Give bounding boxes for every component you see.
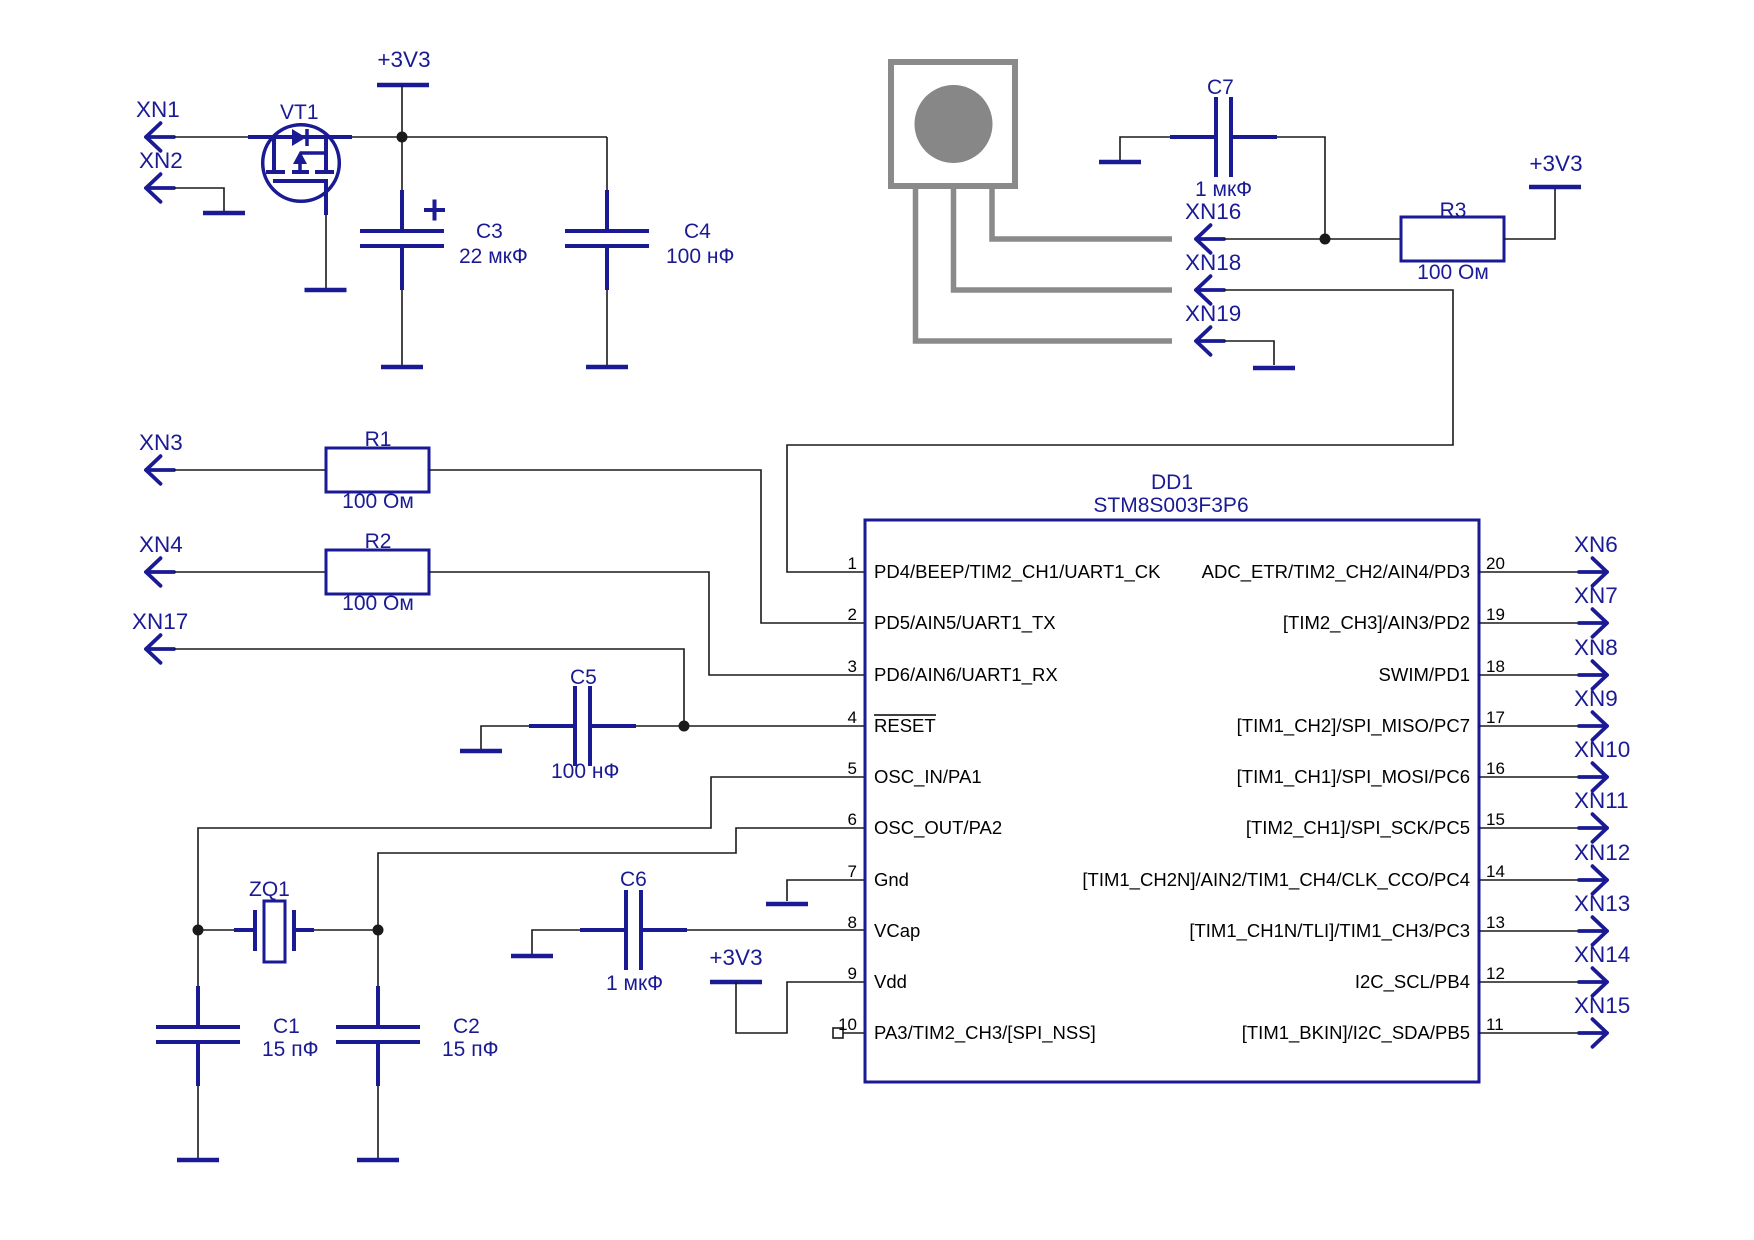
DD1 pin 8 label VCap	[848, 913, 921, 941]
wire VT1 drain to C4	[352, 136, 607, 138]
svg-text:Gnd: Gnd	[874, 869, 909, 890]
svg-text:12: 12	[1486, 964, 1505, 983]
resistor R3	[1401, 199, 1504, 284]
svg-text:C2: C2	[453, 1015, 480, 1038]
connector arrow XN6	[1579, 558, 1607, 586]
wire DD1 pin 15 stub	[1479, 827, 1580, 829]
svg-text:OSC_OUT/PA2: OSC_OUT/PA2	[874, 817, 1002, 839]
DD1 pin 6 label OSC_OUT/PA2	[848, 810, 1003, 839]
svg-text:XN7: XN7	[1574, 583, 1618, 608]
DD1 pin 19 label [TIM2_CH3]/AIN3/PD2	[1283, 605, 1505, 634]
ground DD1 Gnd	[766, 902, 808, 907]
wire node to C1	[197, 930, 199, 986]
DD1 pin 20 label ADC_ETR/TIM2_CH2/AIN4/PD3	[1202, 554, 1505, 583]
connector XN3 label	[139, 430, 183, 455]
svg-text:R3: R3	[1440, 199, 1467, 222]
svg-text:[TIM1_CH1N/TLI]/TIM1_CH3/PC3: [TIM1_CH1N/TLI]/TIM1_CH3/PC3	[1189, 920, 1470, 942]
wire DD1 pin 16 stub	[1479, 776, 1580, 778]
wire DD1 pin 11 stub	[1479, 1032, 1580, 1034]
DD1 pin 11 label [TIM1_BKIN]/I2C_SDA/PB5	[1242, 1015, 1504, 1044]
svg-text:XN17: XN17	[132, 609, 188, 634]
svg-text:17: 17	[1486, 708, 1505, 727]
svg-text:11: 11	[1486, 1015, 1504, 1034]
connector arrow XN19	[1196, 327, 1224, 355]
DD1 pin 15 label [TIM2_CH1]/SPI_SCK/PC5	[1246, 810, 1505, 839]
wire DD1 pin 6 OSC_OUT to crystal	[378, 828, 864, 930]
wire C3 to ground	[401, 290, 403, 365]
wire +3V3 to DD1 pin 9 Vdd	[736, 982, 864, 1033]
svg-text:XN2: XN2	[139, 148, 183, 173]
wire pin 10 stub	[843, 1032, 864, 1034]
wire DD1 pin 18 stub	[1479, 674, 1580, 676]
DD1 pin 12 label I2C_SCL/PB4	[1355, 964, 1505, 993]
ground C5	[460, 749, 502, 754]
wire XN1 to VT1 source	[174, 136, 248, 138]
svg-text:XN4: XN4	[139, 532, 183, 557]
connector arrow XN4	[146, 558, 174, 586]
crystal ZQ1	[234, 878, 314, 962]
svg-text:STM8S003F3P6: STM8S003F3P6	[1093, 494, 1248, 517]
svg-text:[TIM1_CH2N]/AIN2/TIM1_CH4/CLK_: [TIM1_CH2N]/AIN2/TIM1_CH4/CLK_CCO/PC4	[1082, 869, 1470, 891]
wire C7 left to ground	[1120, 137, 1170, 160]
svg-text:100 Ом: 100 Ом	[1417, 261, 1489, 284]
wire XN18 to DD1 pin 1	[787, 290, 1453, 572]
svg-text:RESET: RESET	[874, 715, 936, 736]
svg-text:[TIM1_CH2]/SPI_MISO/PC7: [TIM1_CH2]/SPI_MISO/PC7	[1237, 715, 1470, 737]
wire DD1 pin 20 stub	[1479, 571, 1580, 573]
connector XN7 label	[1574, 583, 1618, 608]
svg-text:100 нФ: 100 нФ	[551, 760, 619, 783]
svg-text:R1: R1	[365, 428, 392, 451]
svg-text:XN18: XN18	[1185, 250, 1241, 275]
svg-text:[TIM2_CH3]/AIN3/PD2: [TIM2_CH3]/AIN3/PD2	[1283, 612, 1470, 634]
connector arrow XN7	[1579, 609, 1607, 637]
svg-text:PD5/AIN5/UART1_TX: PD5/AIN5/UART1_TX	[874, 612, 1056, 634]
svg-text:XN13: XN13	[1574, 891, 1630, 916]
ground XN2	[203, 211, 245, 216]
connector XN4 label	[139, 532, 183, 557]
DD1 pin 3 label PD6/AIN6/UART1_RX	[848, 657, 1058, 686]
svg-text:19: 19	[1486, 605, 1505, 624]
svg-text:XN6: XN6	[1574, 532, 1618, 557]
capacitor C5	[529, 666, 636, 783]
wire C2 to ground	[377, 1086, 379, 1158]
svg-text:+3V3: +3V3	[709, 945, 762, 970]
connector arrow XN1	[146, 123, 174, 151]
wire DD1 pin 5 OSC_IN to crystal	[198, 777, 864, 930]
sensor lens circle	[915, 85, 993, 163]
svg-text:DD1: DD1	[1151, 471, 1193, 494]
svg-text:PD4/BEEP/TIM2_CH1/UART1_CK: PD4/BEEP/TIM2_CH1/UART1_CK	[874, 561, 1161, 583]
wire sensor pin2 to XN18	[954, 186, 1173, 290]
svg-text:C7: C7	[1207, 76, 1234, 99]
resistor R2	[326, 530, 429, 615]
svg-text:8: 8	[848, 913, 857, 932]
svg-text:[TIM1_BKIN]/I2C_SDA/PB5: [TIM1_BKIN]/I2C_SDA/PB5	[1242, 1022, 1470, 1044]
no-connect marker pin 10	[833, 1028, 843, 1038]
connector arrow XN11	[1579, 814, 1607, 842]
ground C4	[586, 365, 628, 370]
wire crystal left	[198, 929, 234, 931]
wire C5 to DD1 pin 4	[636, 725, 864, 727]
wire node to C2	[377, 930, 379, 986]
svg-text:1: 1	[848, 554, 857, 573]
wire C4 to ground	[606, 290, 608, 365]
wire C7 right down to node	[1277, 137, 1325, 239]
connector arrow XN17	[146, 635, 174, 663]
wire XN3 to R1	[174, 469, 326, 471]
svg-text:+3V3: +3V3	[1529, 151, 1582, 176]
connector arrow XN14	[1579, 968, 1607, 996]
svg-text:VCap: VCap	[874, 920, 920, 941]
resistor R1	[326, 428, 429, 513]
svg-text:100 нФ: 100 нФ	[666, 245, 734, 268]
wire XN16 to node	[1224, 238, 1325, 240]
svg-text:SWIM/PD1: SWIM/PD1	[1379, 664, 1470, 685]
svg-text:+3V3: +3V3	[377, 47, 430, 72]
connector XN19 label	[1185, 301, 1241, 326]
svg-text:XN19: XN19	[1185, 301, 1241, 326]
wire R3 to +3V3	[1504, 187, 1555, 239]
wire XN17 down to RESET net	[174, 649, 684, 726]
wire down to C4	[606, 137, 608, 190]
svg-text:[TIM1_CH1]/SPI_MOSI/PC6: [TIM1_CH1]/SPI_MOSI/PC6	[1237, 766, 1470, 788]
svg-text:3: 3	[848, 657, 857, 676]
svg-text:I2C_SCL/PB4: I2C_SCL/PB4	[1355, 971, 1470, 993]
svg-text:C6: C6	[620, 868, 647, 891]
transistor VT1 (P-MOSFET with body diode)	[248, 101, 352, 215]
ground C7	[1099, 160, 1141, 165]
svg-text:R2: R2	[365, 530, 392, 553]
svg-text:C1: C1	[273, 1015, 300, 1038]
connector arrow XN16	[1196, 225, 1224, 253]
junction OSC_IN node	[193, 925, 204, 936]
capacitor C4	[565, 190, 734, 290]
connector XN16 label	[1185, 199, 1241, 224]
wire XN19 to ground	[1224, 341, 1274, 365]
connector XN13 label	[1574, 891, 1630, 916]
junction RESET node	[679, 721, 690, 732]
ground C6	[511, 954, 553, 959]
connector XN11 label	[1574, 788, 1629, 813]
svg-text:100 Ом: 100 Ом	[342, 592, 414, 615]
DD1 pin 17 label [TIM1_CH2]/SPI_MISO/PC7	[1237, 708, 1505, 737]
svg-text:Vdd: Vdd	[874, 971, 907, 992]
capacitor C6	[580, 868, 687, 995]
capacitor C2	[336, 986, 499, 1086]
wire DD1 pin 17 stub	[1479, 725, 1580, 727]
wire DD1 pin 19 stub	[1479, 622, 1580, 624]
svg-text:XN9: XN9	[1574, 686, 1618, 711]
svg-text:XN12: XN12	[1574, 840, 1630, 865]
ground C3	[381, 365, 423, 370]
connector arrow XN3	[146, 456, 174, 484]
IC DD1 STM8S003F3P6 body	[865, 471, 1479, 1082]
wire DD1 pin 14 stub	[1479, 879, 1580, 881]
svg-text:PD6/AIN6/UART1_RX: PD6/AIN6/UART1_RX	[874, 664, 1058, 686]
wire R2 to DD1 pin 3	[429, 572, 864, 675]
svg-text:15 пФ: 15 пФ	[262, 1038, 319, 1061]
DD1 pin 13 label [TIM1_CH1N/TLI]/TIM1_CH3/PC3	[1189, 913, 1505, 942]
wire C6 to DD1 pin 8 VCap	[687, 929, 864, 931]
connector arrow XN13	[1579, 917, 1607, 945]
connector arrow XN18	[1196, 276, 1224, 304]
connector arrow XN10	[1579, 763, 1607, 791]
wire DD1 pin 13 stub	[1479, 930, 1580, 932]
wire +3V3 down to node	[401, 85, 403, 137]
svg-text:XN10: XN10	[1574, 737, 1630, 762]
wire R1 to DD1 pin 2	[429, 470, 864, 623]
svg-text:XN3: XN3	[139, 430, 183, 455]
wire crystal right	[314, 929, 378, 931]
DD1 pin 18 label SWIM/PD1	[1379, 657, 1505, 685]
svg-text:1 мкФ: 1 мкФ	[1195, 178, 1252, 201]
junction node +3V3	[397, 132, 408, 143]
svg-text:15 пФ: 15 пФ	[442, 1038, 499, 1061]
junction XN16 node	[1320, 234, 1331, 245]
connector arrow XN15	[1579, 1019, 1607, 1047]
connector arrow XN9	[1579, 712, 1607, 740]
svg-text:4: 4	[848, 708, 857, 727]
svg-text:OSC_IN/PA1: OSC_IN/PA1	[874, 766, 982, 788]
connector XN1 label	[136, 97, 180, 122]
capacitor C3	[360, 190, 528, 290]
DD1 pin 14 label [TIM1_CH2N]/AIN2/TIM1_CH4/CLK_CCO/PC4	[1082, 862, 1505, 891]
ground VT1 gate	[305, 288, 347, 293]
svg-text:C5: C5	[570, 666, 597, 689]
wire C6 left to ground	[532, 930, 580, 954]
DD1 pin 5 label OSC_IN/PA1	[848, 759, 982, 788]
connector XN18 label	[1185, 250, 1241, 275]
svg-text:15: 15	[1486, 810, 1505, 829]
svg-text:XN11: XN11	[1574, 788, 1629, 813]
power +3V3 right	[1529, 151, 1583, 187]
svg-text:18: 18	[1486, 657, 1505, 676]
wire node to R3	[1325, 238, 1401, 240]
wire DD1 pin 7 Gnd to ground	[787, 880, 864, 901]
wire sensor pin3 to XN16	[992, 186, 1172, 239]
connector XN6 label	[1574, 532, 1618, 557]
svg-text:VT1: VT1	[280, 101, 319, 124]
wire C5 left to ground	[481, 726, 529, 749]
connector XN14 label	[1574, 942, 1630, 967]
wire XN4 to R2	[174, 571, 326, 573]
DD1 pin 9 label Vdd	[848, 964, 907, 992]
DD1 pin 4 label RESET	[848, 708, 936, 736]
svg-text:6: 6	[848, 810, 857, 829]
svg-text:2: 2	[848, 605, 857, 624]
svg-text:ZQ1: ZQ1	[249, 878, 290, 901]
svg-text:C4: C4	[684, 220, 711, 243]
junction OSC_OUT node	[373, 925, 384, 936]
connector arrow XN2	[146, 174, 174, 202]
DD1 pin 16 label [TIM1_CH1]/SPI_MOSI/PC6	[1237, 759, 1505, 788]
connector XN15 label	[1574, 993, 1630, 1018]
wire node down to C3	[401, 137, 403, 190]
connector arrow XN8	[1579, 661, 1607, 689]
svg-text:14: 14	[1486, 862, 1505, 881]
connector XN8 label	[1574, 635, 1618, 660]
svg-text:XN16: XN16	[1185, 199, 1241, 224]
connector XN17 label	[132, 609, 188, 634]
capacitor C7	[1170, 76, 1277, 201]
DD1 pin 10 label PA3/TIM2_CH3/[SPI_NSS]	[838, 1015, 1096, 1044]
svg-text:XN14: XN14	[1574, 942, 1630, 967]
svg-text:XN1: XN1	[136, 97, 180, 122]
svg-text:16: 16	[1486, 759, 1505, 778]
connector arrow XN12	[1579, 866, 1607, 894]
svg-text:[TIM2_CH1]/SPI_SCK/PC5: [TIM2_CH1]/SPI_SCK/PC5	[1246, 817, 1470, 839]
svg-text:9: 9	[848, 964, 857, 983]
wire XN2 to ground	[174, 188, 224, 211]
connector XN10 label	[1574, 737, 1630, 762]
ground C1	[177, 1158, 219, 1163]
ground XN19	[1253, 366, 1295, 371]
svg-text:22 мкФ: 22 мкФ	[459, 245, 528, 268]
wire VT1 gate to ground	[325, 215, 327, 288]
power +3V3 top-left	[377, 47, 431, 85]
wire sensor pin1 to XN19	[916, 186, 1173, 341]
power +3V3 at Vdd	[709, 945, 762, 982]
DD1 pin 7 label Gnd	[848, 862, 909, 890]
connector XN2 label	[139, 148, 183, 173]
wire C1 to ground	[197, 1086, 199, 1158]
svg-text:10: 10	[838, 1015, 857, 1034]
capacitor C1	[156, 986, 319, 1086]
svg-text:ADC_ETR/TIM2_CH2/AIN4/PD3: ADC_ETR/TIM2_CH2/AIN4/PD3	[1202, 561, 1470, 583]
svg-text:7: 7	[848, 862, 857, 881]
DD1 pin 1 label PD4/BEEP/TIM2_CH1/UART1_CK	[848, 554, 1162, 583]
svg-text:100 Ом: 100 Ом	[342, 490, 414, 513]
svg-text:13: 13	[1486, 913, 1505, 932]
svg-text:C3: C3	[476, 220, 503, 243]
connector XN12 label	[1574, 840, 1630, 865]
sensor module (photo receiver) box	[891, 62, 1015, 186]
svg-text:XN8: XN8	[1574, 635, 1618, 660]
svg-text:1 мкФ: 1 мкФ	[606, 972, 663, 995]
svg-text:20: 20	[1486, 554, 1505, 573]
ground C2	[357, 1158, 399, 1163]
connector XN9 label	[1574, 686, 1618, 711]
svg-text:5: 5	[848, 759, 857, 778]
svg-text:PA3/TIM2_CH3/[SPI_NSS]: PA3/TIM2_CH3/[SPI_NSS]	[874, 1022, 1096, 1044]
wire DD1 pin 12 stub	[1479, 981, 1580, 983]
DD1 pin 2 label PD5/AIN5/UART1_TX	[848, 605, 1056, 634]
svg-text:XN15: XN15	[1574, 993, 1630, 1018]
